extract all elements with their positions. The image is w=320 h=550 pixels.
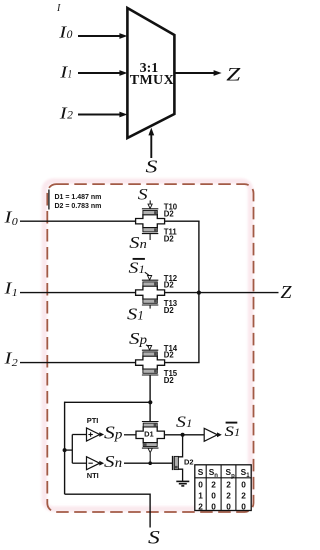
inverter S1bar bbox=[204, 428, 222, 441]
svg-text:S: S bbox=[198, 467, 204, 477]
svg-text:n: n bbox=[115, 455, 123, 470]
svg-text:S: S bbox=[129, 329, 140, 348]
wire S bottom horizontal bbox=[65, 493, 151, 495]
svg-text:1: 1 bbox=[234, 427, 240, 439]
junction S branch bbox=[148, 400, 152, 404]
svg-text:PTI: PTI bbox=[87, 416, 99, 425]
mux trapezoid U-TMUX bbox=[127, 8, 174, 138]
minus sign NTI bbox=[88, 462, 92, 464]
svg-text:0: 0 bbox=[67, 29, 73, 41]
wire Sp to D1 bbox=[124, 434, 137, 436]
svg-text:S: S bbox=[225, 424, 235, 440]
svg-text:1: 1 bbox=[12, 287, 18, 299]
svg-text:p: p bbox=[139, 332, 148, 347]
wire T15 gate down to D1 bbox=[149, 375, 151, 422]
svg-text:0: 0 bbox=[241, 501, 246, 511]
svg-text:I: I bbox=[56, 3, 61, 14]
svg-text:n: n bbox=[140, 236, 147, 251]
junction bus Z bbox=[197, 291, 201, 295]
input arrow I2 bbox=[78, 114, 121, 116]
wire T12 output to Z bbox=[165, 292, 279, 294]
label S1bar output bbox=[226, 422, 238, 424]
label S1bar at T12 bbox=[133, 258, 145, 260]
wire T10 output bbox=[165, 220, 200, 222]
svg-text:D2: D2 bbox=[184, 458, 194, 467]
svg-text:0: 0 bbox=[198, 480, 203, 490]
svg-text:p: p bbox=[231, 473, 235, 479]
svg-text:D2: D2 bbox=[164, 376, 175, 385]
junction S1 bbox=[181, 433, 185, 437]
svg-text:1: 1 bbox=[198, 491, 203, 501]
svg-text:Z: Z bbox=[226, 65, 241, 86]
svg-text:TMUX: TMUX bbox=[130, 73, 174, 88]
svg-text:Z: Z bbox=[281, 282, 292, 302]
input arrow I0 bbox=[78, 35, 121, 37]
svg-text:NTI: NTI bbox=[87, 471, 99, 480]
svg-text:S: S bbox=[138, 187, 148, 204]
svg-text:S: S bbox=[146, 157, 158, 177]
svg-text:S: S bbox=[127, 304, 137, 323]
junction D1 gate on Sn wire bbox=[148, 461, 152, 465]
svg-text:S: S bbox=[129, 233, 139, 252]
svg-text:2: 2 bbox=[12, 357, 19, 369]
svg-text:S: S bbox=[104, 452, 115, 471]
svg-text:0: 0 bbox=[211, 501, 216, 511]
gate arrow T14 bbox=[148, 346, 152, 350]
svg-text:p: p bbox=[114, 426, 123, 441]
svg-text:D2: D2 bbox=[164, 209, 175, 218]
parameter box bar bbox=[48, 190, 50, 210]
wire inverter input vertical bbox=[71, 435, 73, 464]
svg-text:1: 1 bbox=[68, 69, 73, 81]
svg-text:1: 1 bbox=[139, 262, 145, 276]
junction inverter feed bbox=[63, 448, 67, 452]
svg-text:0: 0 bbox=[211, 491, 216, 501]
svg-text:2: 2 bbox=[211, 480, 216, 490]
wire I1 bbox=[20, 292, 136, 294]
pink halo of dashed border bbox=[44, 181, 250, 509]
wire Sn to D2 gate bbox=[124, 462, 172, 464]
gate lead T13 to S1 bbox=[149, 305, 151, 309]
wire D1 output S1 bbox=[164, 434, 204, 436]
gate lead D1 to Sn wire bbox=[149, 453, 151, 463]
transmission gate T14/T15 bbox=[136, 350, 165, 375]
svg-text:2: 2 bbox=[67, 110, 73, 122]
svg-text:D2: D2 bbox=[164, 281, 175, 290]
svg-text:S: S bbox=[129, 260, 139, 277]
svg-text:D1 = 1.487 nm: D1 = 1.487 nm bbox=[55, 194, 102, 201]
wire S drop to label bbox=[149, 494, 151, 528]
output arrow Z top bbox=[174, 72, 215, 74]
gate arrow T10 bbox=[148, 204, 152, 208]
wire S bus left vertical bbox=[64, 402, 66, 495]
svg-text:S: S bbox=[104, 422, 115, 442]
select arrow S top bbox=[150, 134, 152, 158]
wire PTI input bbox=[72, 434, 86, 436]
svg-text:0: 0 bbox=[12, 216, 19, 228]
svg-text:0: 0 bbox=[226, 501, 231, 511]
transmission gate D1 bbox=[136, 422, 164, 449]
dashed red border bbox=[47, 184, 253, 512]
input arrow I1 bbox=[78, 72, 121, 74]
svg-text:0: 0 bbox=[241, 480, 246, 490]
gate lead S to T10 bbox=[149, 200, 151, 204]
ground bbox=[176, 480, 189, 482]
wire NTI input bbox=[72, 462, 86, 464]
svg-text:1: 1 bbox=[137, 308, 143, 322]
truth table bbox=[195, 465, 251, 512]
wire right bus bbox=[198, 221, 200, 362]
gate arrow T12 bbox=[148, 276, 152, 280]
svg-text:D2 = 0.783 nm: D2 = 0.783 nm bbox=[55, 203, 102, 210]
gate arrow D1 bottom bbox=[148, 448, 152, 452]
svg-text:2: 2 bbox=[198, 501, 203, 511]
svg-text:1: 1 bbox=[186, 416, 192, 430]
wire S1 down to D2 bbox=[178, 435, 182, 457]
wire S branch horizontal bbox=[65, 401, 151, 403]
gate lead S1bar to T12 bbox=[145, 272, 149, 275]
transmission gate T12/T13 bbox=[136, 280, 165, 305]
svg-text:n: n bbox=[214, 473, 218, 479]
transmission gate T10/T11 bbox=[136, 209, 165, 234]
wire I2 bbox=[20, 362, 136, 364]
svg-text:S: S bbox=[176, 414, 186, 431]
svg-text:D2: D2 bbox=[164, 351, 175, 360]
wire junction to inverter split bbox=[65, 449, 73, 451]
svg-text:S: S bbox=[148, 528, 160, 549]
wire T14 output bbox=[165, 362, 200, 364]
svg-text:2: 2 bbox=[226, 491, 231, 501]
inverter PTI bbox=[87, 428, 105, 441]
svg-text:2: 2 bbox=[226, 480, 231, 490]
transistor D2 bbox=[172, 456, 174, 470]
svg-text:2: 2 bbox=[241, 491, 246, 501]
svg-text:D1: D1 bbox=[144, 429, 154, 438]
inverter NTI bbox=[87, 457, 105, 470]
gate lead T11 to Sn bbox=[149, 234, 151, 240]
wire D2 source to ground bbox=[178, 469, 182, 481]
gate lead Sp to T14 bbox=[146, 345, 149, 347]
wire I0 bbox=[20, 220, 136, 222]
plus sign PTI bbox=[88, 434, 92, 436]
svg-text:D2: D2 bbox=[164, 234, 175, 243]
svg-text:D2: D2 bbox=[164, 306, 175, 315]
